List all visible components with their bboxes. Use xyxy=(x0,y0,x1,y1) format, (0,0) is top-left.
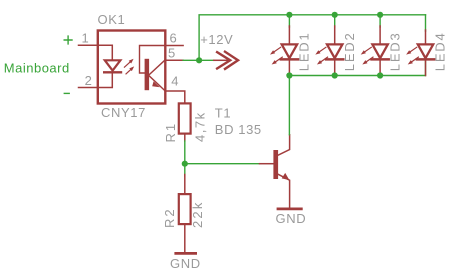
wire LED top stubs xyxy=(289,15,425,31)
transistor T1 xyxy=(273,150,278,179)
pin 6 base path xyxy=(140,46,166,74)
LED LED4 xyxy=(409,30,434,76)
pin 4 emitter xyxy=(149,76,165,91)
node dots bottom bus xyxy=(286,72,292,78)
wire vertical up and top bus xyxy=(199,15,425,61)
svg-text:Mainboard: Mainboard xyxy=(4,61,70,76)
svg-text:BD 135: BD 135 xyxy=(215,122,262,137)
svg-text:6: 6 xyxy=(170,31,178,46)
wire R1 bottom to junction xyxy=(184,141,186,164)
svg-text:5: 5 xyxy=(168,46,176,61)
wire R2 to ground xyxy=(184,224,186,252)
ground GND (T1) xyxy=(278,207,301,210)
light arrows inside OK1 xyxy=(124,61,131,74)
LED LED1 xyxy=(273,26,298,76)
node + xyxy=(64,36,72,44)
svg-text:LED2: LED2 xyxy=(342,31,357,71)
pin 2 xyxy=(79,73,113,88)
svg-text:CNY17: CNY17 xyxy=(101,105,146,120)
svg-text:R1: R1 xyxy=(163,122,178,143)
wire junction down to R2 xyxy=(184,164,186,176)
resistor R2 xyxy=(179,194,191,224)
svg-text:LED3: LED3 xyxy=(387,31,402,71)
svg-text:R2: R2 xyxy=(162,207,177,228)
pin 5 collector xyxy=(149,60,165,75)
node junction pin5 xyxy=(196,57,202,63)
node dots top bus xyxy=(286,12,292,18)
svg-text:+12V: +12V xyxy=(200,32,233,47)
resistor R1 xyxy=(179,103,191,133)
LED LED3 xyxy=(364,26,389,76)
phototransistor inside OK1 xyxy=(145,59,150,90)
wire junction to base xyxy=(185,163,260,165)
wire pin5 to +12V node xyxy=(183,59,214,61)
svg-text:LED1: LED1 xyxy=(297,31,312,71)
svg-text:1: 1 xyxy=(82,31,90,46)
collector diagonal xyxy=(278,135,290,156)
svg-text:T1: T1 xyxy=(215,106,231,121)
svg-text:OK1: OK1 xyxy=(98,12,126,27)
node junction R1/R2/base xyxy=(182,161,188,167)
svg-text:GND: GND xyxy=(276,211,307,226)
svg-text:22k: 22k xyxy=(190,200,205,228)
node - xyxy=(64,92,69,94)
svg-text:2: 2 xyxy=(85,73,93,88)
wire LED bottom bus xyxy=(289,59,425,75)
svg-text:LED4: LED4 xyxy=(433,31,448,71)
wire collector up to LED bus xyxy=(288,76,290,135)
op-amp OK1 optocoupler box xyxy=(98,31,166,104)
svg-text:4,7k: 4,7k xyxy=(193,111,208,142)
pin 1 xyxy=(79,45,113,60)
svg-text:GND: GND xyxy=(170,256,201,271)
supply +12V symbol xyxy=(214,59,228,61)
ground GND (R2) xyxy=(176,252,196,255)
emitter diagonal with arrow xyxy=(278,174,290,207)
diode LED inside OK1 xyxy=(104,60,121,72)
LED LED2 xyxy=(318,26,343,76)
svg-text:4: 4 xyxy=(171,74,179,89)
